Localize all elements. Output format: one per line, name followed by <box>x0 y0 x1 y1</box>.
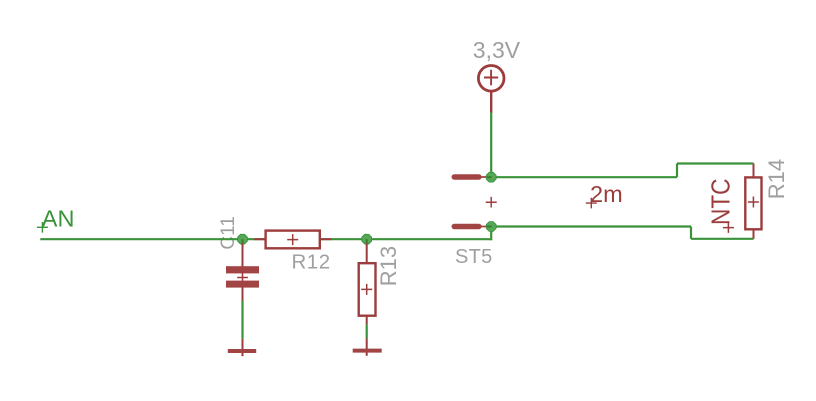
wire R13 to ground <box>366 324 368 338</box>
wire C11 to ground <box>241 301 243 339</box>
net AN origin cross <box>37 222 48 233</box>
svg-text:R12: R12 <box>292 251 331 274</box>
wire vertical step up right side <box>676 164 678 178</box>
connector ST5 upper pin line <box>479 176 489 178</box>
wire to R14 bottom <box>691 238 754 240</box>
wire ST5 lower pin to right <box>491 225 691 227</box>
capacitor C11 bottom pin wire <box>242 287 244 301</box>
connector ST5 lower pin bar <box>454 224 479 229</box>
resistor R13 origin cross <box>361 284 372 295</box>
capacitor C11 plate 1 <box>226 266 259 273</box>
resistor R13 bottom stub <box>366 316 368 325</box>
wire ST5 upper pin to right <box>491 176 677 178</box>
wire to R14 top <box>677 162 754 164</box>
junction dot at ST5 lower pin <box>486 222 496 232</box>
ground symbol below C11 bar <box>228 349 256 353</box>
resistor R12 left stub <box>254 238 266 240</box>
supply symbol stem <box>490 91 492 112</box>
resistor R14 body <box>745 177 761 229</box>
junction dot at ST5 upper pin <box>486 172 496 182</box>
svg-text:C11: C11 <box>218 216 239 249</box>
capacitor C11 top pin wire <box>242 243 244 267</box>
capacitor C11 plate 2 <box>226 281 259 288</box>
wire vertical step down right side <box>690 227 692 239</box>
junction dot at R13 <box>362 234 372 244</box>
wire from 3.3V supply down to ST5 upper pin <box>490 112 492 177</box>
wire vertical step to ST5 lower pin <box>490 227 492 241</box>
svg-text:R13: R13 <box>376 246 401 286</box>
svg-text:3,3V: 3,3V <box>473 37 521 63</box>
resistor R13 body <box>359 263 376 316</box>
value NTC origin cross <box>723 222 734 233</box>
connector ST5 origin cross <box>486 197 497 208</box>
svg-text:R14: R14 <box>764 159 789 199</box>
resistor R14 top stub <box>753 164 755 178</box>
resistor R12 origin cross <box>287 234 298 245</box>
cable label origin cross <box>586 198 597 209</box>
resistor R13 top stub <box>366 243 368 264</box>
ground symbol below R13 stem <box>366 338 368 355</box>
connector ST5 lower pin line <box>479 226 489 228</box>
ground symbol below C11 stem <box>242 339 244 357</box>
capacitor C11 origin cross <box>237 272 248 283</box>
junction dot at C11 <box>238 234 248 244</box>
resistor R12 right stub <box>320 238 332 240</box>
supply symbol cross <box>484 70 498 85</box>
svg-text:ST5: ST5 <box>455 246 493 268</box>
resistor R14 bottom stub <box>753 229 755 239</box>
net AN wire (main horizontal) <box>40 238 491 240</box>
resistor R12 body <box>266 231 320 249</box>
supply symbol 3,3V circle <box>478 66 504 92</box>
connector ST5 upper pin bar <box>454 174 479 179</box>
ground symbol below R13 bar <box>353 349 382 353</box>
svg-text:NTC: NTC <box>705 179 735 226</box>
resistor R14 origin cross <box>748 197 759 208</box>
